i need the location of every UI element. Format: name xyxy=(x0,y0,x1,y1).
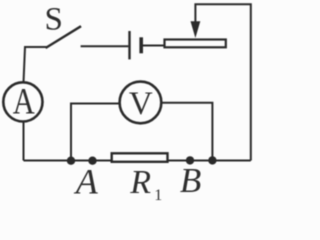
ammeter U1 circle xyxy=(3,82,42,121)
voltmeter right branch wire xyxy=(162,103,212,161)
wire left vertical (switch corner down to ammeter top) xyxy=(24,47,48,83)
svg-text:S: S xyxy=(45,2,63,38)
svg-text:1: 1 xyxy=(154,187,162,203)
svg-text:A: A xyxy=(13,82,35,123)
rheostat slider stem and top-right wire xyxy=(195,4,250,160)
node B junction dot (voltmeter tap) xyxy=(208,156,216,164)
svg-text:R: R xyxy=(129,164,151,201)
wire ammeter bottom to bottom-left corner xyxy=(23,122,25,161)
node A junction dot (voltmeter tap) xyxy=(67,157,75,165)
wire switch contact to battery xyxy=(81,45,129,47)
rheostat slider arrowhead xyxy=(191,21,201,38)
rheostat R2 body xyxy=(165,40,226,48)
switch S blade xyxy=(47,27,80,48)
wire battery to rheostat xyxy=(143,45,165,47)
bottom wire xyxy=(24,160,251,162)
node A dot xyxy=(88,157,96,165)
svg-text:B: B xyxy=(180,161,201,200)
resistor R1 body xyxy=(112,153,168,162)
voltmeter left branch wire xyxy=(71,104,119,161)
node B dot xyxy=(186,156,194,164)
battery long plate xyxy=(128,31,130,59)
svg-text:A: A xyxy=(74,162,99,202)
battery short plate xyxy=(139,37,143,53)
svg-text:V: V xyxy=(129,86,153,122)
voltmeter U2 circle xyxy=(120,82,162,124)
